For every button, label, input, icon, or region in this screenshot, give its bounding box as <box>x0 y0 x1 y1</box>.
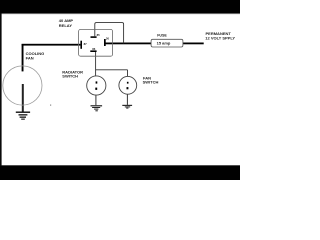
ground G3 fan switch <box>122 105 132 109</box>
letterbox top bar <box>0 0 240 13</box>
wire: fan switch to ground <box>126 94 128 105</box>
wire: radiator switch to ground <box>95 95 97 105</box>
svg-text:FAN: FAN <box>26 55 34 60</box>
svg-text:FUSE: FUSE <box>157 34 167 38</box>
svg-text:12 VOLT SPPLY: 12 VOLT SPPLY <box>205 36 235 41</box>
switch S1 contact dots <box>96 81 98 83</box>
wire: pin 30 to fuse <box>106 43 152 45</box>
svg-text:SWITCH: SWITCH <box>143 79 159 84</box>
speck <box>50 105 51 106</box>
relay pin 86 <box>90 50 96 52</box>
ground G2 radiator switch <box>91 105 103 111</box>
svg-text:86: 86 <box>92 47 96 51</box>
svg-text:30: 30 <box>106 37 110 41</box>
svg-text:87: 87 <box>84 42 88 46</box>
svg-text:RELAY: RELAY <box>59 23 73 28</box>
wire: motor to ground <box>22 84 24 112</box>
svg-text:SWITCH: SWITCH <box>62 73 78 78</box>
relay pin 85 <box>91 36 97 38</box>
wire: motor feed (vertical) <box>22 44 24 71</box>
relay pin 87 <box>80 41 82 49</box>
wire: down to fan switch <box>127 70 129 77</box>
svg-text:15 amp: 15 amp <box>157 40 171 45</box>
fuse F1 body <box>151 39 183 47</box>
letterbox bottom bar <box>0 164 240 167</box>
relay pin 30 <box>104 39 106 46</box>
wire: pin 87 to motor (horizontal) <box>22 44 81 46</box>
switch S2 fan switch body <box>119 76 137 94</box>
motor M1 cooling fan body <box>3 66 42 105</box>
left frame line <box>0 13 2 166</box>
wire: pin 86 down to junction <box>95 52 97 76</box>
ground G1 motor <box>16 112 30 120</box>
wire: fuse to supply <box>183 43 204 45</box>
svg-text:85: 85 <box>97 33 101 37</box>
switch S2 contact dots <box>127 82 129 84</box>
wire: pin 85 loop to +12V line <box>95 23 124 44</box>
relay K1 body <box>79 29 113 56</box>
switch S1 radiator switch body <box>87 76 106 95</box>
wire: junction to fan switch (horizontal) <box>96 69 128 71</box>
